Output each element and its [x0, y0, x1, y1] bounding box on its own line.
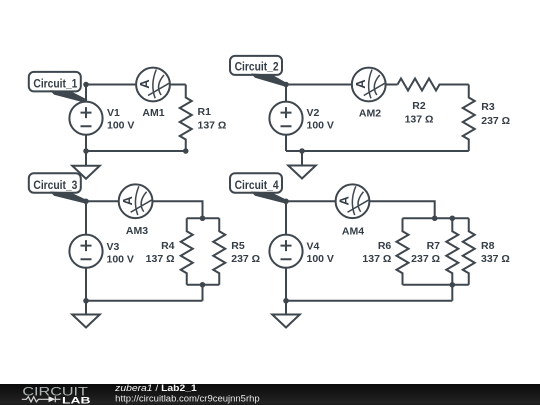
svg-text:100 V: 100 V	[307, 120, 334, 132]
svg-text:V2: V2	[307, 107, 320, 119]
svg-text:137 Ω: 137 Ω	[146, 253, 175, 265]
svg-text:100 V: 100 V	[307, 253, 334, 265]
svg-text:Circuit_4: Circuit_4	[235, 178, 279, 192]
svg-text:137 Ω: 137 Ω	[405, 114, 434, 126]
svg-text:zubera1 / Lab2_1: zubera1 / Lab2_1	[114, 383, 197, 393]
svg-text:R5: R5	[231, 240, 245, 252]
svg-text:237 Ω: 237 Ω	[411, 253, 440, 265]
svg-text:R6: R6	[378, 240, 392, 252]
svg-text:237 Ω: 237 Ω	[231, 253, 260, 265]
svg-text:R3: R3	[481, 101, 495, 113]
svg-text:Circuit_3: Circuit_3	[33, 178, 77, 192]
svg-text:LAB: LAB	[62, 395, 91, 405]
svg-text:R8: R8	[481, 240, 495, 252]
svg-text:337 Ω: 337 Ω	[481, 253, 510, 265]
svg-text:Circuit_2: Circuit_2	[235, 60, 279, 74]
svg-text:V1: V1	[107, 107, 120, 119]
svg-text:http://circuitlab.com/cr9ceujn: http://circuitlab.com/cr9ceujnn5rhp	[115, 394, 260, 404]
svg-text:Circuit_1: Circuit_1	[33, 77, 77, 91]
svg-text:V3: V3	[107, 241, 120, 253]
svg-text:V4: V4	[307, 241, 320, 253]
svg-text:AM1: AM1	[142, 107, 164, 119]
svg-text:137 Ω: 137 Ω	[362, 253, 391, 265]
svg-text:R1: R1	[198, 106, 212, 118]
svg-text:100 V: 100 V	[107, 253, 134, 265]
svg-text:R4: R4	[161, 240, 175, 252]
svg-text:AM4: AM4	[342, 226, 364, 238]
svg-text:AM2: AM2	[359, 108, 381, 120]
svg-text:AM3: AM3	[126, 225, 148, 237]
svg-text:100 V: 100 V	[107, 120, 134, 132]
svg-text:137 Ω: 137 Ω	[198, 120, 227, 132]
svg-text:237 Ω: 237 Ω	[481, 115, 510, 127]
svg-text:R7: R7	[427, 240, 441, 252]
svg-text:R2: R2	[412, 100, 426, 112]
